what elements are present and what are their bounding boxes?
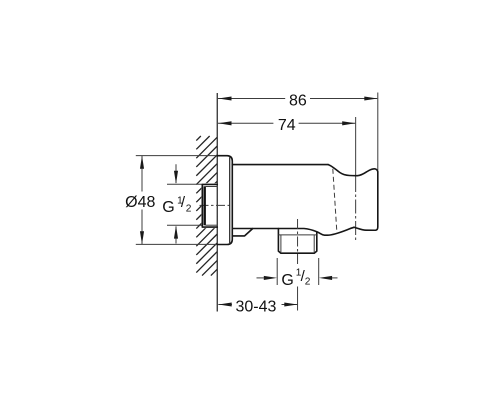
- svg-text:Ø48: Ø48: [125, 194, 155, 211]
- dimension 30-43: [218, 299, 297, 316]
- holder top edge: [328, 165, 377, 176]
- svg-text:G: G: [281, 272, 293, 289]
- arrow left-pointing: [319, 276, 332, 280]
- inlet thread G1/2: [202, 184, 217, 227]
- bracket below body: [232, 229, 252, 236]
- dimension 86 line: [218, 92, 378, 109]
- arrow 86 left: [218, 96, 231, 100]
- hidden edge holder (dashed): [333, 169, 337, 230]
- flange (escutcheon): [217, 156, 232, 245]
- flange face ring line: [229, 157, 231, 243]
- extension line thread top: [167, 183, 202, 185]
- svg-text:G: G: [162, 199, 174, 216]
- arrow 74 left: [218, 121, 231, 125]
- holder right edge: [375, 172, 378, 231]
- body bottom edge into holder bottom: [232, 227, 375, 235]
- arrow D48 up: [140, 156, 144, 169]
- thread OD dimension arrows: [167, 164, 202, 243]
- extension line nipple left: [276, 258, 278, 285]
- centre line holder (dash-dot): [355, 178, 357, 241]
- arrow up to thread bottom: [174, 225, 178, 238]
- svg-text:86: 86: [289, 92, 307, 109]
- arrow right-pointing: [284, 302, 297, 306]
- collar line: [278, 234, 316, 236]
- label G 1/2 left: [162, 194, 192, 216]
- thread outline: [202, 184, 217, 227]
- svg-text:30-43: 30-43: [235, 299, 276, 316]
- extension line flange bottom: [136, 243, 217, 245]
- nipple outline: [278, 229, 316, 254]
- arrow left-pointing: [219, 302, 232, 306]
- centre line horizontal (dash-dot): [200, 204, 232, 206]
- extension line right end 86: [377, 93, 379, 171]
- white mask for inlet thread over hatching: [201, 183, 217, 228]
- svg-text:2: 2: [305, 277, 311, 288]
- wall hatching: [196, 136, 217, 276]
- thread root lines nipple: [280, 235, 282, 252]
- arrow down to thread top: [174, 171, 178, 184]
- extension line nipple centre lower: [297, 287, 299, 311]
- arrow 74 right: [342, 121, 355, 125]
- extension line thread bottom: [167, 224, 202, 226]
- extension line nipple right: [318, 258, 320, 285]
- thread chamfer heavy edge: [203, 186, 205, 225]
- thread root lines: [206, 186, 218, 188]
- outlet nipple G1/2: [278, 229, 316, 254]
- extension line flange top: [136, 155, 217, 157]
- dimension 74 line: [218, 117, 355, 134]
- body top edge: [232, 164, 328, 166]
- extension line holder centre (74): [355, 117, 357, 178]
- dimension D48: [125, 156, 217, 245]
- wire: wall face line / extension line: [216, 93, 218, 312]
- arrow D48 down: [140, 231, 144, 244]
- centre line nipple (dash-dot): [297, 219, 299, 266]
- arrow 86 right: [364, 96, 377, 100]
- svg-text:2: 2: [186, 203, 192, 214]
- svg-text:74: 74: [278, 117, 296, 134]
- arrow right-pointing: [264, 276, 277, 280]
- dimension G1/2 bottom: [257, 258, 338, 289]
